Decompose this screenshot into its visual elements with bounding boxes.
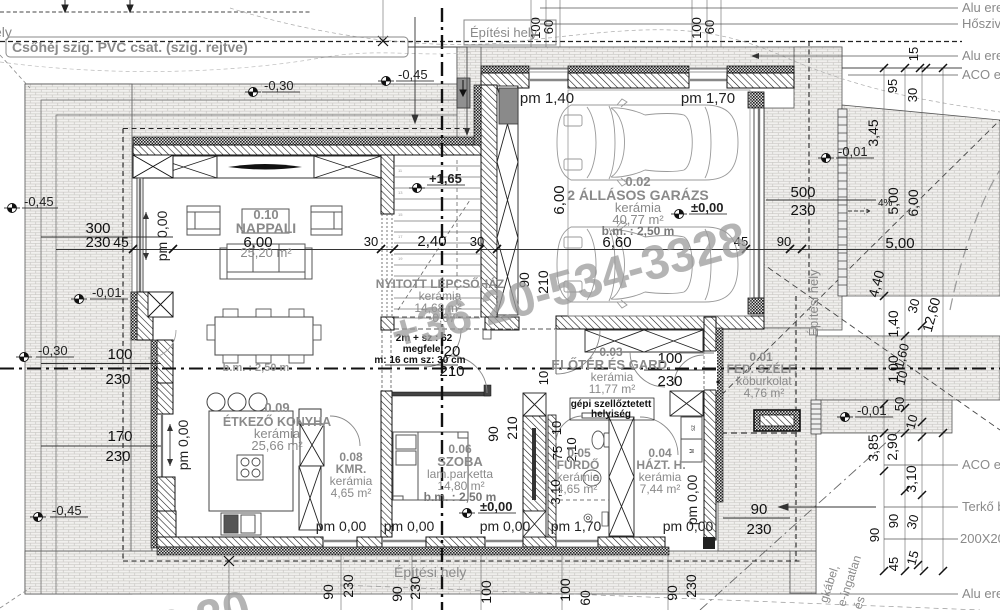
left dim line row3 xyxy=(41,445,161,447)
hall step outline xyxy=(483,330,491,339)
tick on envelope bottom xyxy=(224,556,234,566)
svg-text:19: 19 xyxy=(398,256,403,261)
building envelope dashed bottom xyxy=(123,560,800,562)
svg-text:4,65 m²: 4,65 m² xyxy=(557,482,598,496)
kitchen island xyxy=(209,411,293,511)
svg-text:90: 90 xyxy=(664,585,680,601)
tv swoosh on sideboard xyxy=(228,164,302,170)
survey arrow 2 xyxy=(127,0,133,12)
svg-text:230: 230 xyxy=(790,202,815,219)
room label KMR xyxy=(330,450,373,500)
svg-text:500: 500 xyxy=(790,184,815,201)
diagonal faint bottom center xyxy=(340,585,980,610)
bed szoba xyxy=(393,432,468,500)
kitchen west wall pier mid xyxy=(157,383,173,414)
shower dashed line bath xyxy=(552,499,609,501)
hazt door arc xyxy=(640,417,678,455)
bottom wall segment 3 xyxy=(426,537,485,547)
terrain dotted contour 2 xyxy=(0,52,470,72)
svg-text:pm 0,00: pm 0,00 xyxy=(154,210,170,261)
pm vertical living west xyxy=(143,210,170,261)
svg-text:NAPPALI: NAPPALI xyxy=(236,220,296,236)
svg-text:230: 230 xyxy=(657,373,682,390)
corridor wall end cap xyxy=(484,385,491,396)
building envelope dashed right lower xyxy=(795,296,797,561)
svg-text:4,76 m²: 4,76 m² xyxy=(744,386,785,400)
terrace paving strip along kitchen west xyxy=(131,292,152,555)
svg-text:Alu eres: Alu eres xyxy=(962,586,1000,601)
paving lower-right strip xyxy=(790,433,816,593)
svg-text:230: 230 xyxy=(746,521,771,538)
room label LEPCSOHAZ xyxy=(376,276,504,315)
koburkolat stone paving of covered entry xyxy=(718,328,816,551)
stair note box xyxy=(374,333,465,366)
insulation garage north seg1 xyxy=(481,66,529,73)
stair tread numbers hint xyxy=(398,168,403,261)
left dim line row2 xyxy=(41,363,161,365)
utility diagonal dash-dot bottom-right xyxy=(700,430,900,610)
corridor wall above SZOBA xyxy=(392,392,490,396)
building envelope dashed left xyxy=(122,129,124,562)
svg-text:90: 90 xyxy=(777,234,791,249)
paving right block below boundary xyxy=(814,400,952,433)
chimney pillar on terrace xyxy=(457,78,470,108)
leader ACO top xyxy=(848,67,1000,82)
bottom wall segment 2 xyxy=(357,537,382,547)
svg-text:5,00: 5,00 xyxy=(885,235,914,252)
svg-text:13: 13 xyxy=(398,190,403,195)
svg-text:90: 90 xyxy=(751,501,768,518)
svg-text:helyiség: helyiség xyxy=(591,409,631,420)
svg-text:100: 100 xyxy=(107,346,132,363)
bottom window 3 xyxy=(485,540,523,542)
svg-text:pm 0,00: pm 0,00 xyxy=(480,518,531,534)
level marker -0,01 right bottom xyxy=(837,403,893,422)
insulation garage north seg3 xyxy=(727,66,794,73)
main horizontal dimension line xyxy=(56,249,968,251)
corridor door arc xyxy=(630,352,665,387)
svg-text:100: 100 xyxy=(478,580,494,604)
SZOBA FURDO X pier bottom xyxy=(523,511,546,537)
svg-text:200X200: 200X200 xyxy=(960,531,1000,546)
lintel X-band entry xyxy=(585,330,703,352)
entry dim line xyxy=(644,369,716,371)
garage north window 2 xyxy=(689,79,727,81)
stair treads xyxy=(394,166,480,318)
kitchen KMR pier X xyxy=(300,424,324,466)
building envelope dashed top xyxy=(0,41,962,43)
retaining ladder strip east xyxy=(838,109,847,296)
koburkolat edge dashed xyxy=(721,432,800,434)
car 2 garage xyxy=(557,221,738,308)
sideboard living north xyxy=(217,156,314,178)
leader Terko xyxy=(884,499,1000,514)
lintel X-box left living north xyxy=(150,156,217,178)
cabinet zs entry xyxy=(683,417,700,433)
terrain dotted contour 1 xyxy=(230,8,1000,112)
furdo door arc xyxy=(556,416,583,443)
living room interior floor xyxy=(143,155,381,330)
toilet xyxy=(592,431,609,449)
level marker -0,01 right top xyxy=(818,144,874,163)
leader Alu eresz bottom xyxy=(816,586,1000,601)
svg-text:pm 0,00: pm 0,00 xyxy=(384,518,435,534)
level marker -0,30 left lower xyxy=(16,343,74,362)
svg-text:7,44 m²: 7,44 m² xyxy=(640,482,681,496)
leader 200X200 xyxy=(884,531,1000,546)
svg-text:±0,00: ±0,00 xyxy=(691,200,723,215)
pm vertical kitchen west xyxy=(167,419,191,470)
garage floor slab outline xyxy=(568,90,750,316)
terrace paving left band xyxy=(25,84,132,594)
svg-text:30: 30 xyxy=(364,234,378,249)
chimney arrow xyxy=(460,80,466,96)
svg-text:pm 1,70: pm 1,70 xyxy=(551,518,602,534)
svg-text:45: 45 xyxy=(886,557,901,571)
front door opening xyxy=(674,351,720,390)
bath sink xyxy=(583,470,601,486)
svg-text:Építési hely: Építési hely xyxy=(470,25,538,40)
svg-text:60: 60 xyxy=(702,20,717,34)
svg-text:90: 90 xyxy=(485,426,501,442)
svg-text:230: 230 xyxy=(340,574,356,598)
svg-text:4%: 4% xyxy=(878,198,893,209)
svg-text:Terkő b: Terkő b xyxy=(962,499,1000,514)
bottom wall segment 5 xyxy=(598,537,665,547)
garage east glazing xyxy=(754,108,764,298)
stair west glass partition xyxy=(382,214,392,317)
dining chairs bottom xyxy=(223,355,304,363)
wardrobe X entry xyxy=(670,391,703,416)
gard dashed wall below stair xyxy=(382,330,391,391)
kitchen west wall lower pier xyxy=(157,477,175,511)
wall garage north segment 2 xyxy=(568,73,689,88)
svg-text:pm 0,00: pm 0,00 xyxy=(684,474,700,525)
garage south wall xyxy=(556,316,764,329)
bottom dim extension lines xyxy=(229,555,668,610)
garage north window 1 xyxy=(529,79,568,81)
svg-text:210: 210 xyxy=(504,416,520,440)
dining chair left end xyxy=(207,325,215,340)
svg-text:-0,01: -0,01 xyxy=(857,403,887,418)
bottom window 4 xyxy=(556,540,598,542)
svg-text:-0,45: -0,45 xyxy=(24,194,54,209)
car 1 garage xyxy=(557,99,738,186)
top dim labels garage xyxy=(528,17,717,39)
entry east wall xyxy=(704,317,716,540)
right dim grid vertical lines xyxy=(884,68,943,571)
FURDO west thin wall xyxy=(548,415,556,537)
svg-text:Építési hely: Építési hely xyxy=(806,269,821,337)
axis dash-dot vertical xyxy=(441,8,443,610)
level marker -0,45 left bottom xyxy=(30,503,88,522)
hall south wall piece xyxy=(485,317,519,330)
insulation garage west upper xyxy=(474,85,481,145)
corner pier NW living xyxy=(133,155,173,178)
hall threshold dashed xyxy=(394,317,556,329)
stair direction dashed diagonal xyxy=(398,200,470,310)
right dim ticks xyxy=(880,64,947,575)
svg-text:3,10: 3,10 xyxy=(903,465,919,492)
svg-text:Építési hely: Építési hely xyxy=(394,564,466,580)
svg-text:Alu eresz: Alu eresz xyxy=(962,48,1000,63)
svg-text:pm 0,00: pm 0,00 xyxy=(316,518,367,534)
svg-text:6,00: 6,00 xyxy=(551,185,568,214)
svg-text:0.09: 0.09 xyxy=(264,400,289,415)
room label GARAZS xyxy=(567,174,709,238)
entry door arc xyxy=(556,330,600,374)
kitchen west window 2 xyxy=(161,414,163,477)
svg-text:Hőszivattyú: Hőszivattyú xyxy=(962,16,1000,31)
west glass pane living xyxy=(139,178,141,293)
room label SZOBA xyxy=(424,442,497,504)
svg-text:-0,30: -0,30 xyxy=(38,343,68,358)
svg-text:pm 0,00: pm 0,00 xyxy=(175,419,191,470)
svg-text:10: 10 xyxy=(536,371,551,385)
room label NAPPALI xyxy=(236,207,296,260)
room label ELOTER xyxy=(551,345,670,396)
top survey vertical with arrow xyxy=(412,17,418,123)
right dim top line xyxy=(842,67,962,69)
washer box M xyxy=(681,439,702,462)
terrace step line 2 xyxy=(56,115,457,594)
svg-text:ACO eu: ACO eu xyxy=(962,457,1000,472)
insulation kitchen west xyxy=(151,340,157,548)
level marker -0,45 left xyxy=(4,194,58,213)
lintel X-box right living north xyxy=(314,156,381,178)
room label FED SZELF xyxy=(727,350,798,400)
svg-text:4,65 m²: 4,65 m² xyxy=(331,486,372,500)
kmr door arc xyxy=(330,416,360,446)
level marker szoba 0,00 xyxy=(459,499,516,518)
svg-text:b.m. : 2,50 m: b.m. : 2,50 m xyxy=(223,362,290,374)
svg-text:30: 30 xyxy=(470,234,484,249)
svg-text:45: 45 xyxy=(113,234,129,250)
svg-text:m: 16 cm sz: 30 cm: m: 16 cm sz: 30 cm xyxy=(374,355,465,366)
entry door leaf xyxy=(555,330,557,374)
secondary left dimension line xyxy=(41,236,173,238)
svg-text:M: M xyxy=(690,449,696,454)
insulation entry east xyxy=(716,328,723,502)
west glass wall living xyxy=(137,178,143,293)
axis dash-dot horizontal xyxy=(0,368,1000,370)
kitchen west window 1 xyxy=(161,383,163,414)
svg-text:+1,65: +1,65 xyxy=(429,171,462,186)
corner diagonal dashed top-left xyxy=(0,55,30,88)
plot diagonal dashed right 1 xyxy=(686,210,1000,430)
armchair right xyxy=(311,206,342,235)
level marker garage 0,00 xyxy=(671,200,727,219)
tick on envelope top xyxy=(378,36,388,46)
level marker -0,01 left xyxy=(71,285,128,304)
FURDO HAZT pier X tall xyxy=(609,417,634,536)
coffee table xyxy=(242,209,289,233)
terrace paving bottom band xyxy=(25,551,816,594)
sloped paving area right xyxy=(842,105,1000,296)
arrow 90 right xyxy=(779,504,876,510)
svg-text:Alu ereszcs.: Alu ereszcs. xyxy=(962,0,1000,15)
right rotated dims xyxy=(865,47,944,571)
svg-text:90: 90 xyxy=(886,514,901,528)
room label HAZT xyxy=(636,446,685,496)
svg-text:230: 230 xyxy=(85,234,110,251)
room label KONYHA xyxy=(223,400,331,453)
corner pier SW living X xyxy=(148,292,173,317)
svg-text:-0,30: -0,30 xyxy=(264,78,294,93)
plot diagonal dashed right 2 xyxy=(686,120,1000,430)
svg-text:90: 90 xyxy=(867,528,882,542)
leader ACO mid xyxy=(884,457,1000,472)
tall cabinet pantry xyxy=(299,466,321,530)
svg-text:230: 230 xyxy=(683,574,699,598)
insulation bottom wall xyxy=(157,547,669,555)
leader Hoszivattyu xyxy=(540,16,1000,31)
level marker stair +1,65 xyxy=(409,171,465,193)
stair west wall bottom pier xyxy=(381,317,394,330)
kitchen SW corner block xyxy=(157,511,176,537)
hall door arc xyxy=(424,330,461,367)
kerb ladder strip southeast xyxy=(811,400,821,434)
garage right dim line xyxy=(766,199,876,201)
garage west wall xyxy=(481,85,497,317)
svg-text:10: 10 xyxy=(549,421,564,435)
plot dashed line top xyxy=(0,11,310,13)
dining chairs top xyxy=(223,309,304,317)
svg-text:11,77 m²: 11,77 m² xyxy=(589,382,635,396)
bottom wall segment 4 xyxy=(523,537,556,547)
svg-text:3,85: 3,85 xyxy=(865,434,881,461)
garage east glazing pane xyxy=(758,108,760,298)
SZOBA FURDO wall X pier top xyxy=(523,393,546,416)
garage inner pier band with X xyxy=(497,86,518,315)
building envelope dashed right upper xyxy=(808,41,810,296)
bottom rotated dims xyxy=(320,574,699,606)
svg-text:90: 90 xyxy=(320,584,336,600)
svg-text:2,90: 2,90 xyxy=(884,433,900,460)
dining chair right end xyxy=(313,325,321,340)
wall garage north segment 1 xyxy=(481,73,529,88)
svg-text:230: 230 xyxy=(105,448,130,465)
svg-text:sz: sz xyxy=(691,425,697,431)
survey arrow 1 xyxy=(62,0,68,12)
wall living north xyxy=(133,145,481,155)
kitchen dining interior floor xyxy=(173,330,381,537)
svg-text:pm 1,40: pm 1,40 xyxy=(520,90,574,107)
sofa three seat xyxy=(220,244,312,279)
bottom window 1 xyxy=(323,540,357,542)
svg-text:ely: ely xyxy=(0,24,12,40)
paving strip west of garage xyxy=(457,47,481,139)
right dim line 90 230 xyxy=(723,517,790,519)
garage window1 outer lines xyxy=(529,68,568,72)
room label FURDO xyxy=(557,446,600,496)
building envelope dashed inner left step xyxy=(123,128,470,130)
KMR SZOBA wall xyxy=(381,391,392,537)
stair interior floor xyxy=(394,155,481,330)
4 percent slope arrow xyxy=(848,198,893,214)
stair west wall top pier xyxy=(381,155,394,214)
top dim extension lines xyxy=(383,0,721,47)
floor drain bath xyxy=(584,512,608,526)
svg-text:1,40: 1,40 xyxy=(885,310,901,337)
epitesi hely box top xyxy=(464,20,556,45)
pm row bottom xyxy=(316,518,714,534)
svg-text:pm 1,70: pm 1,70 xyxy=(681,90,735,107)
doormat hatched covered entry xyxy=(754,410,800,431)
bottom window 2 xyxy=(382,540,426,542)
SZOBA FURDO wall xyxy=(523,416,546,511)
insulation living north xyxy=(133,137,481,145)
paving strip above garage xyxy=(457,47,842,69)
garage east corner block top xyxy=(748,92,764,108)
kitchen sink unit xyxy=(221,513,261,535)
corner block SW living hatch xyxy=(137,292,173,340)
garage interior floor xyxy=(497,88,754,316)
svg-text:15: 15 xyxy=(906,47,921,61)
hob unit xyxy=(237,455,263,480)
dining table xyxy=(215,317,313,355)
svg-text:50: 50 xyxy=(892,397,907,411)
svg-text:2,40: 2,40 xyxy=(417,233,446,250)
svg-text:90: 90 xyxy=(389,586,405,602)
armchair left xyxy=(187,206,220,235)
note gepi szelloztetett xyxy=(570,398,654,420)
corner diagonal dashed bottom-left xyxy=(0,588,30,608)
szoba door arc xyxy=(450,356,487,393)
garage east corner block bottom xyxy=(748,298,764,314)
svg-text:25,66 m²: 25,66 m² xyxy=(251,438,303,453)
dim ticks main line xyxy=(129,245,806,253)
kitchen west wall upper pier xyxy=(157,340,173,383)
svg-text:60: 60 xyxy=(577,590,593,606)
black pillar bottom entry xyxy=(703,537,715,549)
svg-text:95: 95 xyxy=(885,79,900,93)
svg-text:-0,01: -0,01 xyxy=(838,144,868,159)
svg-text:-0,45: -0,45 xyxy=(398,67,428,82)
wall garage north segment 3 xyxy=(727,73,794,88)
garage gray pillar xyxy=(499,88,518,124)
svg-text:30: 30 xyxy=(905,88,920,102)
terrace step line 1 xyxy=(41,100,457,594)
svg-text:230: 230 xyxy=(105,371,130,388)
bar stools xyxy=(207,393,267,411)
garage window2 outer lines xyxy=(689,68,727,72)
svg-text:6,00: 6,00 xyxy=(905,189,921,216)
bottom wall segment 1 xyxy=(157,537,323,547)
insulation SW corner xyxy=(131,292,137,340)
svg-text:170: 170 xyxy=(107,428,132,445)
svg-text:±0,00: ±0,00 xyxy=(480,499,512,514)
level marker -0,45 terrace top right xyxy=(378,67,434,86)
paving right middle block xyxy=(814,336,1000,400)
dryer box sz xyxy=(681,417,702,439)
svg-text:Csőhéj szig. PVC csat. (szig.: Csőhéj szig. PVC csat. (szig. rejtve) xyxy=(12,39,248,55)
leader Alu eresz mid xyxy=(751,48,1000,63)
svg-text:-0,45: -0,45 xyxy=(52,503,82,518)
FURDO corridor top wall xyxy=(582,413,609,418)
rotated utility texts bottom right xyxy=(817,554,868,610)
svg-text:ACO eu: ACO eu xyxy=(962,67,1000,82)
svg-text:25,20 m²: 25,20 m² xyxy=(240,245,292,260)
svg-text:100: 100 xyxy=(557,578,573,602)
svg-text:17: 17 xyxy=(398,234,403,239)
level marker -0,30 terrace top xyxy=(245,78,300,97)
paving strip east of garage xyxy=(764,47,842,330)
living kitchen pass arc xyxy=(148,330,176,358)
stair center dashed line xyxy=(456,160,458,318)
svg-text:60: 60 xyxy=(541,20,556,34)
slope dash line right xyxy=(950,170,1000,310)
